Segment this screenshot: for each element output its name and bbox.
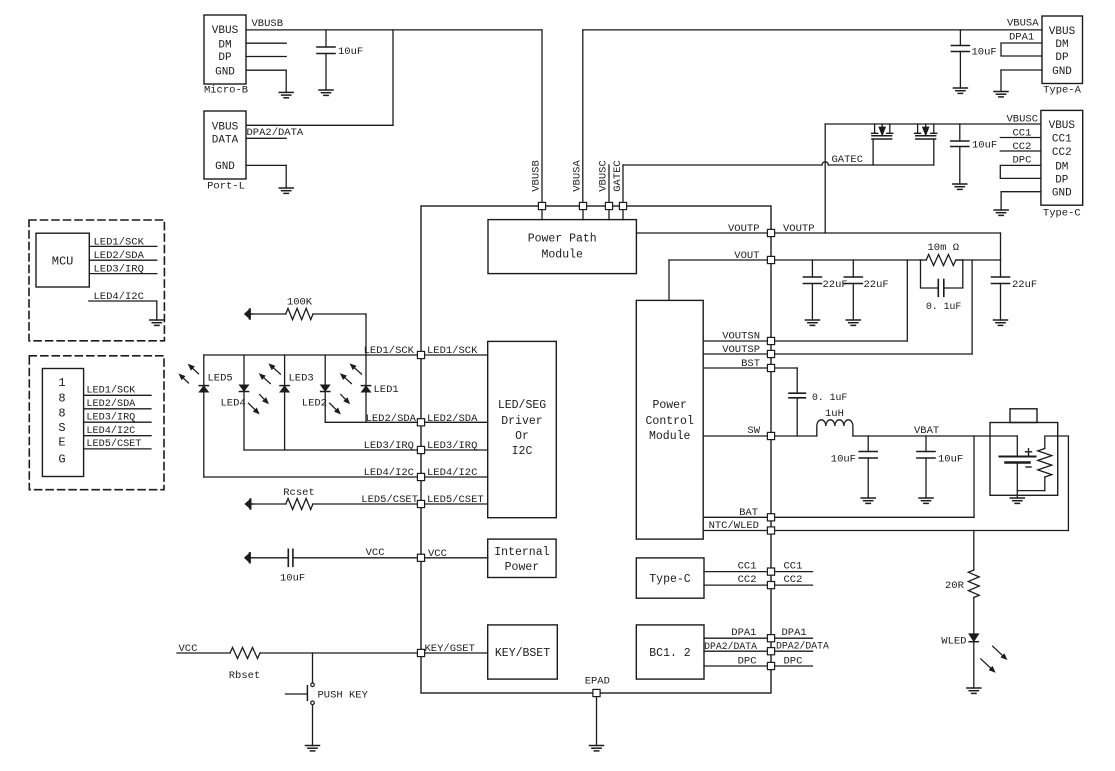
svg-text:CC2: CC2 <box>1052 147 1072 159</box>
svg-text:22uF: 22uF <box>864 279 889 291</box>
label L1 1uH <box>825 408 844 420</box>
svg-text:LED4/I2C: LED4/I2C <box>86 425 135 437</box>
pin label EPAD <box>585 676 610 688</box>
svg-text:DATA: DATA <box>212 134 239 146</box>
pin label LED3/IRQ inside <box>427 440 477 452</box>
svg-text:VBUSC: VBUSC <box>1007 114 1039 126</box>
pin label VOUT inside <box>734 250 759 262</box>
pin LED1/SCK <box>417 351 424 358</box>
pin SW <box>767 432 774 439</box>
LED D3 <box>280 386 289 392</box>
module Internal Power <box>488 539 556 577</box>
pin label VOUTSP inside <box>722 344 760 356</box>
ground C2 <box>953 88 967 93</box>
svg-text:CC2: CC2 <box>784 574 803 586</box>
svg-text:LED1/SCK: LED1/SCK <box>86 384 136 396</box>
label LED4 <box>221 398 246 410</box>
capacitor C1 10uF VBUSB <box>317 30 335 90</box>
module BC1.2 block <box>636 625 704 679</box>
wire DPA1 row <box>704 637 813 639</box>
svg-text:VBUS: VBUS <box>1049 26 1076 38</box>
svg-text:DPC: DPC <box>1013 155 1032 167</box>
wire BST net <box>703 368 797 393</box>
ground MCU LED4/I2C <box>150 320 164 325</box>
net label DPC at Type-C <box>1013 155 1032 167</box>
svg-text:10uF: 10uF <box>280 573 305 585</box>
svg-text:10m Ω: 10m Ω <box>928 242 960 254</box>
resistor R2 NTC <box>1017 449 1052 491</box>
pin label DPA1 inside <box>731 627 756 639</box>
svg-text:LED1/SCK: LED1/SCK <box>364 345 415 357</box>
label 188SEG LED5/CSET <box>86 438 141 450</box>
svg-text:Power Path: Power Path <box>528 233 597 246</box>
wire LED4/I2C row <box>204 476 488 478</box>
wire 100K to LED1/SCK <box>252 314 367 355</box>
pin label DPC inside <box>738 655 757 667</box>
LED D2 <box>321 385 330 391</box>
svg-text:GND: GND <box>1052 188 1072 200</box>
terminal VCC cap left <box>245 553 253 562</box>
svg-text:DP: DP <box>1055 52 1069 64</box>
connector J2 Port-L <box>204 111 246 193</box>
label MCU LED4/I2C <box>94 291 144 303</box>
ground C9 <box>861 498 875 503</box>
ground battery <box>1010 498 1024 503</box>
wire Q1 gate lead <box>872 139 874 165</box>
188SEG application dashed box <box>29 356 164 490</box>
label C5 22uF <box>823 279 848 291</box>
svg-text:DM: DM <box>1055 39 1068 51</box>
pin label LED4/I2C outside <box>364 467 414 479</box>
resistor R4 Rcset <box>286 499 313 510</box>
pin label NTC/WLED inside <box>709 520 759 532</box>
wire MCU LED3/IRQ stub <box>89 273 157 275</box>
svg-text:LED3/IRQ: LED3/IRQ <box>364 440 414 452</box>
label LED2 <box>302 398 327 410</box>
wire Type-C CC2 stub <box>1000 150 1041 152</box>
svg-text:VBUSA: VBUSA <box>1007 18 1039 30</box>
svg-text:LED2/SDA: LED2/SDA <box>366 413 417 425</box>
wire Micro-B DM stub <box>246 42 286 44</box>
LED2 emission arrows <box>330 395 349 414</box>
svg-text:GATEC: GATEC <box>832 154 864 166</box>
wire VOUTSP net <box>703 260 972 354</box>
ground C10 <box>919 498 933 503</box>
svg-text:VOUTP: VOUTP <box>783 223 815 235</box>
terminal 100K left <box>245 309 253 318</box>
IC U1 outline <box>421 206 771 693</box>
svg-text:VOUTSN: VOUTSN <box>722 331 760 343</box>
svg-text:DPA1: DPA1 <box>1009 32 1034 44</box>
pin GATEC <box>619 202 626 209</box>
svg-text:100K: 100K <box>287 297 313 309</box>
wire LED2 column <box>324 355 326 422</box>
pin BST <box>767 364 774 371</box>
pin label BAT inside <box>739 507 758 519</box>
wire SW net <box>703 435 1017 437</box>
transistor Q2 PMOS <box>915 124 937 139</box>
svg-text:10uF: 10uF <box>338 46 363 58</box>
svg-text:VOUTP: VOUTP <box>728 223 760 235</box>
label MCU LED3/IRQ <box>94 264 144 276</box>
pin label DPC outside <box>784 655 803 667</box>
svg-text:10uF: 10uF <box>831 454 856 466</box>
LED D4 <box>239 385 248 391</box>
svg-text:VBUS: VBUS <box>212 121 239 133</box>
pin BAT <box>767 514 774 521</box>
pin LED4/I2C <box>417 473 424 480</box>
ground push key <box>306 746 320 751</box>
pin LED5/CSET <box>417 500 424 507</box>
svg-text:I2C: I2C <box>512 445 533 458</box>
wire R3 to WLED <box>973 598 975 635</box>
capacitor C4 0.1uF across R1 <box>921 260 963 296</box>
svg-text:Power: Power <box>652 399 687 412</box>
module Power Path Module <box>488 220 636 274</box>
capacitor C7 22uF <box>992 260 1010 320</box>
ground C5 <box>805 320 819 325</box>
wire LED1 column <box>365 355 367 422</box>
pin label CC2 inside <box>738 574 757 586</box>
wire VOUTP-to-switch riser <box>824 124 826 233</box>
module KEY/BSET <box>488 625 558 679</box>
wire MCU LED4/I2C <box>89 301 157 320</box>
svg-text:LED3/IRQ: LED3/IRQ <box>86 411 135 423</box>
label C11 10uF <box>280 573 305 585</box>
net label VBUSB rotated <box>531 160 543 192</box>
svg-text:LED5/CSET: LED5/CSET <box>427 494 484 506</box>
svg-text:LED3/IRQ: LED3/IRQ <box>94 264 144 276</box>
wire BAT net <box>703 436 974 517</box>
label C1 10uF <box>338 46 363 58</box>
net label VBUSA <box>1007 18 1039 30</box>
connector J4 Type-C <box>1041 110 1083 219</box>
battery cell B1 <box>1000 436 1036 498</box>
net label CC2 at Type-C <box>1013 141 1032 153</box>
ground EPAD <box>590 746 604 751</box>
188SEG box <box>42 369 83 477</box>
ground WLED <box>967 688 981 693</box>
wire 188SEG LED3/IRQ stub <box>84 421 151 423</box>
svg-text:VBAT: VBAT <box>914 425 939 437</box>
wire Micro-B GND <box>246 70 286 92</box>
capacitor C9 10uF VBAT <box>859 436 877 498</box>
WLED emission arrows <box>981 646 1006 671</box>
pin label LED2/SDA inside <box>427 413 478 425</box>
pin DPC <box>767 662 774 669</box>
svg-text:MCU: MCU <box>52 255 74 269</box>
pin label LED1/SCK inside <box>427 345 478 357</box>
MCU application dashed box <box>29 220 164 341</box>
label R3 20R <box>945 580 965 592</box>
pin label DPA2/DATA inside <box>704 641 757 652</box>
wire LED5 column <box>203 355 205 477</box>
label C8 0. 1uF <box>812 392 847 403</box>
svg-text:22uF: 22uF <box>823 279 848 291</box>
module Type-C PHY block <box>636 558 704 598</box>
svg-text:Micro-B: Micro-B <box>204 85 248 97</box>
wire VCC row <box>294 557 488 559</box>
wire CC2 row <box>704 584 813 586</box>
pin label CC2 outside <box>784 574 803 586</box>
wire Micro-B DP stub <box>246 56 286 58</box>
ground Port-L <box>279 188 293 193</box>
ground Type-C <box>994 210 1008 215</box>
svg-text:Control: Control <box>646 415 694 428</box>
wire VOUT net <box>669 260 1001 300</box>
capacitor C8 0.1uF BST <box>789 393 805 436</box>
svg-text:LED4/I2C: LED4/I2C <box>94 291 144 303</box>
svg-text:VBUSB: VBUSB <box>531 160 543 192</box>
inductor L1 1uH <box>817 420 853 436</box>
svg-text:VBUSB: VBUSB <box>252 18 284 30</box>
label C3 10uF <box>972 140 997 152</box>
svg-text:BC1. 2: BC1. 2 <box>649 647 691 660</box>
svg-text:0. 1uF: 0. 1uF <box>926 301 961 312</box>
net label VBUSC rotated <box>598 160 610 192</box>
pin label LED5/CSET inside <box>427 494 484 506</box>
ground C3 <box>953 184 967 189</box>
svg-text:Type-A: Type-A <box>1043 85 1082 97</box>
pin label LED1/SCK outside <box>364 345 415 357</box>
label C6 22uF <box>864 279 889 291</box>
pin DPA2/DATA <box>767 648 774 655</box>
svg-text:VOUTSP: VOUTSP <box>722 344 760 356</box>
svg-text:PUSH KEY: PUSH KEY <box>318 690 369 702</box>
battery pack box <box>990 409 1058 496</box>
wire Q2 gate lead <box>933 139 935 165</box>
pin label SW inside <box>747 425 760 437</box>
svg-text:DPC: DPC <box>738 655 757 667</box>
wire 20R branch <box>973 531 975 571</box>
pin label VOUTSN inside <box>722 331 760 343</box>
LED D5 <box>199 386 208 392</box>
net label GATEC rotated <box>612 160 624 192</box>
wire Port-L DATA stub <box>246 137 286 139</box>
svg-text:GND: GND <box>1052 66 1072 78</box>
svg-text:S: S <box>58 421 65 435</box>
svg-text:10uF: 10uF <box>972 47 997 59</box>
capacitor C10 10uF VBAT <box>917 436 935 498</box>
svg-text:LED4: LED4 <box>221 398 246 410</box>
svg-text:DPA2/DATA: DPA2/DATA <box>776 640 829 651</box>
net label CC1 at Type-C <box>1013 128 1032 140</box>
wire DPC row <box>704 665 813 667</box>
pin label DPA1 outside <box>782 627 807 639</box>
ground Micro-B <box>279 92 293 97</box>
wire GATEC net with hop <box>623 162 934 206</box>
pin VCC <box>417 554 424 561</box>
wire VBUSB net <box>246 30 542 206</box>
label R6 Rbset <box>229 670 261 682</box>
label PUSH KEY <box>318 690 369 702</box>
svg-text:G: G <box>58 452 65 466</box>
svg-text:DM: DM <box>1055 161 1068 173</box>
wire Type-A DM-DP tie <box>1001 43 1042 56</box>
wire VOUTP net <box>636 233 1000 260</box>
wire KEY/GSET row <box>177 652 488 654</box>
wire push key branch <box>312 653 314 683</box>
svg-text:22uF: 22uF <box>1012 279 1037 291</box>
svg-text:VOUT: VOUT <box>734 250 759 262</box>
wire NTC/WLED net <box>703 436 1068 531</box>
wire 188SEG LED5/CSET stub <box>84 448 151 450</box>
connector J1 Micro-B <box>204 15 248 97</box>
pin NTC/WLED <box>767 527 774 534</box>
svg-text:CC1: CC1 <box>784 561 803 573</box>
svg-text:8: 8 <box>58 391 65 405</box>
pin VOUTSN <box>767 337 774 344</box>
svg-text:GATEC: GATEC <box>612 160 624 192</box>
svg-text:Rbset: Rbset <box>229 670 261 682</box>
pin label LED2/SDA outside <box>366 413 417 425</box>
svg-text:LED4/I2C: LED4/I2C <box>427 467 477 479</box>
pin label VCC inside <box>428 548 447 560</box>
wire LED4 column <box>243 355 245 450</box>
svg-text:Driver: Driver <box>501 415 542 428</box>
wire top pin stubs into Power Path Module <box>542 206 623 220</box>
svg-text:Port-L: Port-L <box>207 181 245 193</box>
wire LED3 column <box>284 355 286 450</box>
label LED1 <box>374 384 399 396</box>
svg-text:NTC/WLED: NTC/WLED <box>709 520 759 532</box>
pin CC1 <box>767 568 774 575</box>
pin LED2/SDA <box>417 419 424 426</box>
pin label LED5/CSET outside <box>361 494 418 506</box>
label 188SEG LED4/I2C <box>86 425 135 437</box>
svg-text:VBUSC: VBUSC <box>598 160 610 192</box>
label C10 10uF <box>938 454 963 466</box>
svg-text:CC1: CC1 <box>1052 134 1072 146</box>
label 188SEG LED1/SCK <box>86 384 136 396</box>
label R4 Rcset <box>283 487 315 499</box>
LED5 emission arrows <box>180 365 199 383</box>
ground Type-A <box>994 92 1008 97</box>
net label VCC at Rbset <box>179 643 198 655</box>
wire Type-A GND <box>1001 70 1042 92</box>
svg-text:VCC: VCC <box>428 548 447 560</box>
pin label CC1 outside <box>784 561 803 573</box>
svg-text:GND: GND <box>215 161 235 173</box>
wire DPA2/DATA row <box>704 650 813 652</box>
wire EPAD to ground <box>596 693 598 746</box>
svg-text:LED/SEG: LED/SEG <box>498 399 546 412</box>
pin LED3/IRQ <box>417 446 424 453</box>
svg-text:DP: DP <box>218 52 232 64</box>
resistor R1 10m ohm sense <box>921 255 963 266</box>
svg-text:0. 1uF: 0. 1uF <box>812 392 847 403</box>
svg-text:LED3: LED3 <box>289 373 314 385</box>
svg-text:Module: Module <box>649 430 691 443</box>
switch S1 PUSH KEY <box>286 683 315 705</box>
wire Port-L GND <box>246 165 286 188</box>
svg-text:10uF: 10uF <box>938 454 963 466</box>
svg-text:Type-C: Type-C <box>1043 208 1081 220</box>
svg-text:LED2: LED2 <box>302 398 327 410</box>
module Power Control Module <box>636 300 703 539</box>
svg-text:LED5: LED5 <box>208 373 233 385</box>
net label VBUSB <box>252 18 284 30</box>
label MCU LED2/SDA <box>94 250 145 262</box>
svg-text:1uH: 1uH <box>825 408 844 420</box>
svg-text:BST: BST <box>741 358 760 370</box>
svg-text:DPA2/DATA: DPA2/DATA <box>704 641 757 652</box>
svg-text:Rcset: Rcset <box>283 487 315 499</box>
wire push key to ground <box>312 705 314 746</box>
connector J3 Type-A <box>1042 16 1083 97</box>
capacitor C3 10uF VBUSC <box>951 124 969 184</box>
wire VBUSC stub above chip <box>608 165 610 206</box>
svg-text:DP: DP <box>1055 174 1069 186</box>
svg-text:CC2: CC2 <box>738 574 757 586</box>
LED D1 <box>361 386 370 392</box>
svg-text:LED2/SDA: LED2/SDA <box>94 250 145 262</box>
label GATEC <box>832 154 864 166</box>
pin label VCC outside <box>366 547 385 559</box>
wire MCU LED2/SDA stub <box>89 259 157 261</box>
wire VBUSA net <box>583 30 1042 206</box>
label R1 10m ohm <box>928 242 960 254</box>
svg-text:1: 1 <box>58 376 65 390</box>
svg-text:Type-C: Type-C <box>649 573 691 586</box>
pin VOUTP <box>767 229 774 236</box>
label R5 100K <box>287 297 313 309</box>
pin KEY/GSET <box>417 649 424 656</box>
svg-text:Module: Module <box>541 249 583 262</box>
svg-text:EPAD: EPAD <box>585 676 610 688</box>
capacitor C2 10uF VBUSA <box>951 30 969 88</box>
MCU box <box>36 233 89 287</box>
label battery plus <box>1026 449 1032 455</box>
capacitor C11 10uF VCC <box>252 549 293 566</box>
svg-text:VBUS: VBUS <box>212 25 239 37</box>
ground C7 <box>994 320 1008 325</box>
svg-text:Internal: Internal <box>494 546 549 559</box>
LED1 emission arrows <box>341 365 361 384</box>
label C4 0. 1uF <box>926 301 961 312</box>
wire Type-C CC1 stub <box>1000 137 1041 139</box>
svg-text:LED5/CSET: LED5/CSET <box>361 494 418 506</box>
svg-text:LED4/I2C: LED4/I2C <box>364 467 414 479</box>
wire 188SEG LED4/I2C stub <box>84 435 151 437</box>
label battery minus <box>1026 466 1031 468</box>
svg-text:E: E <box>58 436 65 450</box>
wire MCU LED1/SCK stub <box>89 245 157 247</box>
module LED/SEG Driver <box>488 341 557 517</box>
resistor R5 100K <box>286 308 313 319</box>
transistor Q1 PMOS <box>872 124 893 139</box>
svg-text:LED1/SCK: LED1/SCK <box>94 236 145 248</box>
capacitor C5 22uF <box>803 260 821 320</box>
svg-text:DPC: DPC <box>784 655 803 667</box>
svg-text:Or: Or <box>515 430 529 443</box>
net label DPA1 at Type-A <box>1009 32 1034 44</box>
pin DPA1 <box>767 635 774 642</box>
wire VOUTSN net <box>703 260 907 341</box>
label WLED <box>941 636 966 648</box>
svg-text:VBUSA: VBUSA <box>572 160 584 192</box>
net label DPA2/DATA <box>247 127 304 139</box>
LED3 emission arrows <box>260 365 280 384</box>
pin label KEY/GSET inside <box>425 643 475 655</box>
LED4 emission arrows <box>248 395 267 414</box>
svg-text:LED3/IRQ: LED3/IRQ <box>427 440 477 452</box>
wire switch drain rail <box>825 123 1041 125</box>
svg-text:Power: Power <box>505 561 540 574</box>
svg-text:WLED: WLED <box>941 636 966 648</box>
label LED3 <box>289 373 314 385</box>
terminal Rcset left <box>245 499 253 508</box>
